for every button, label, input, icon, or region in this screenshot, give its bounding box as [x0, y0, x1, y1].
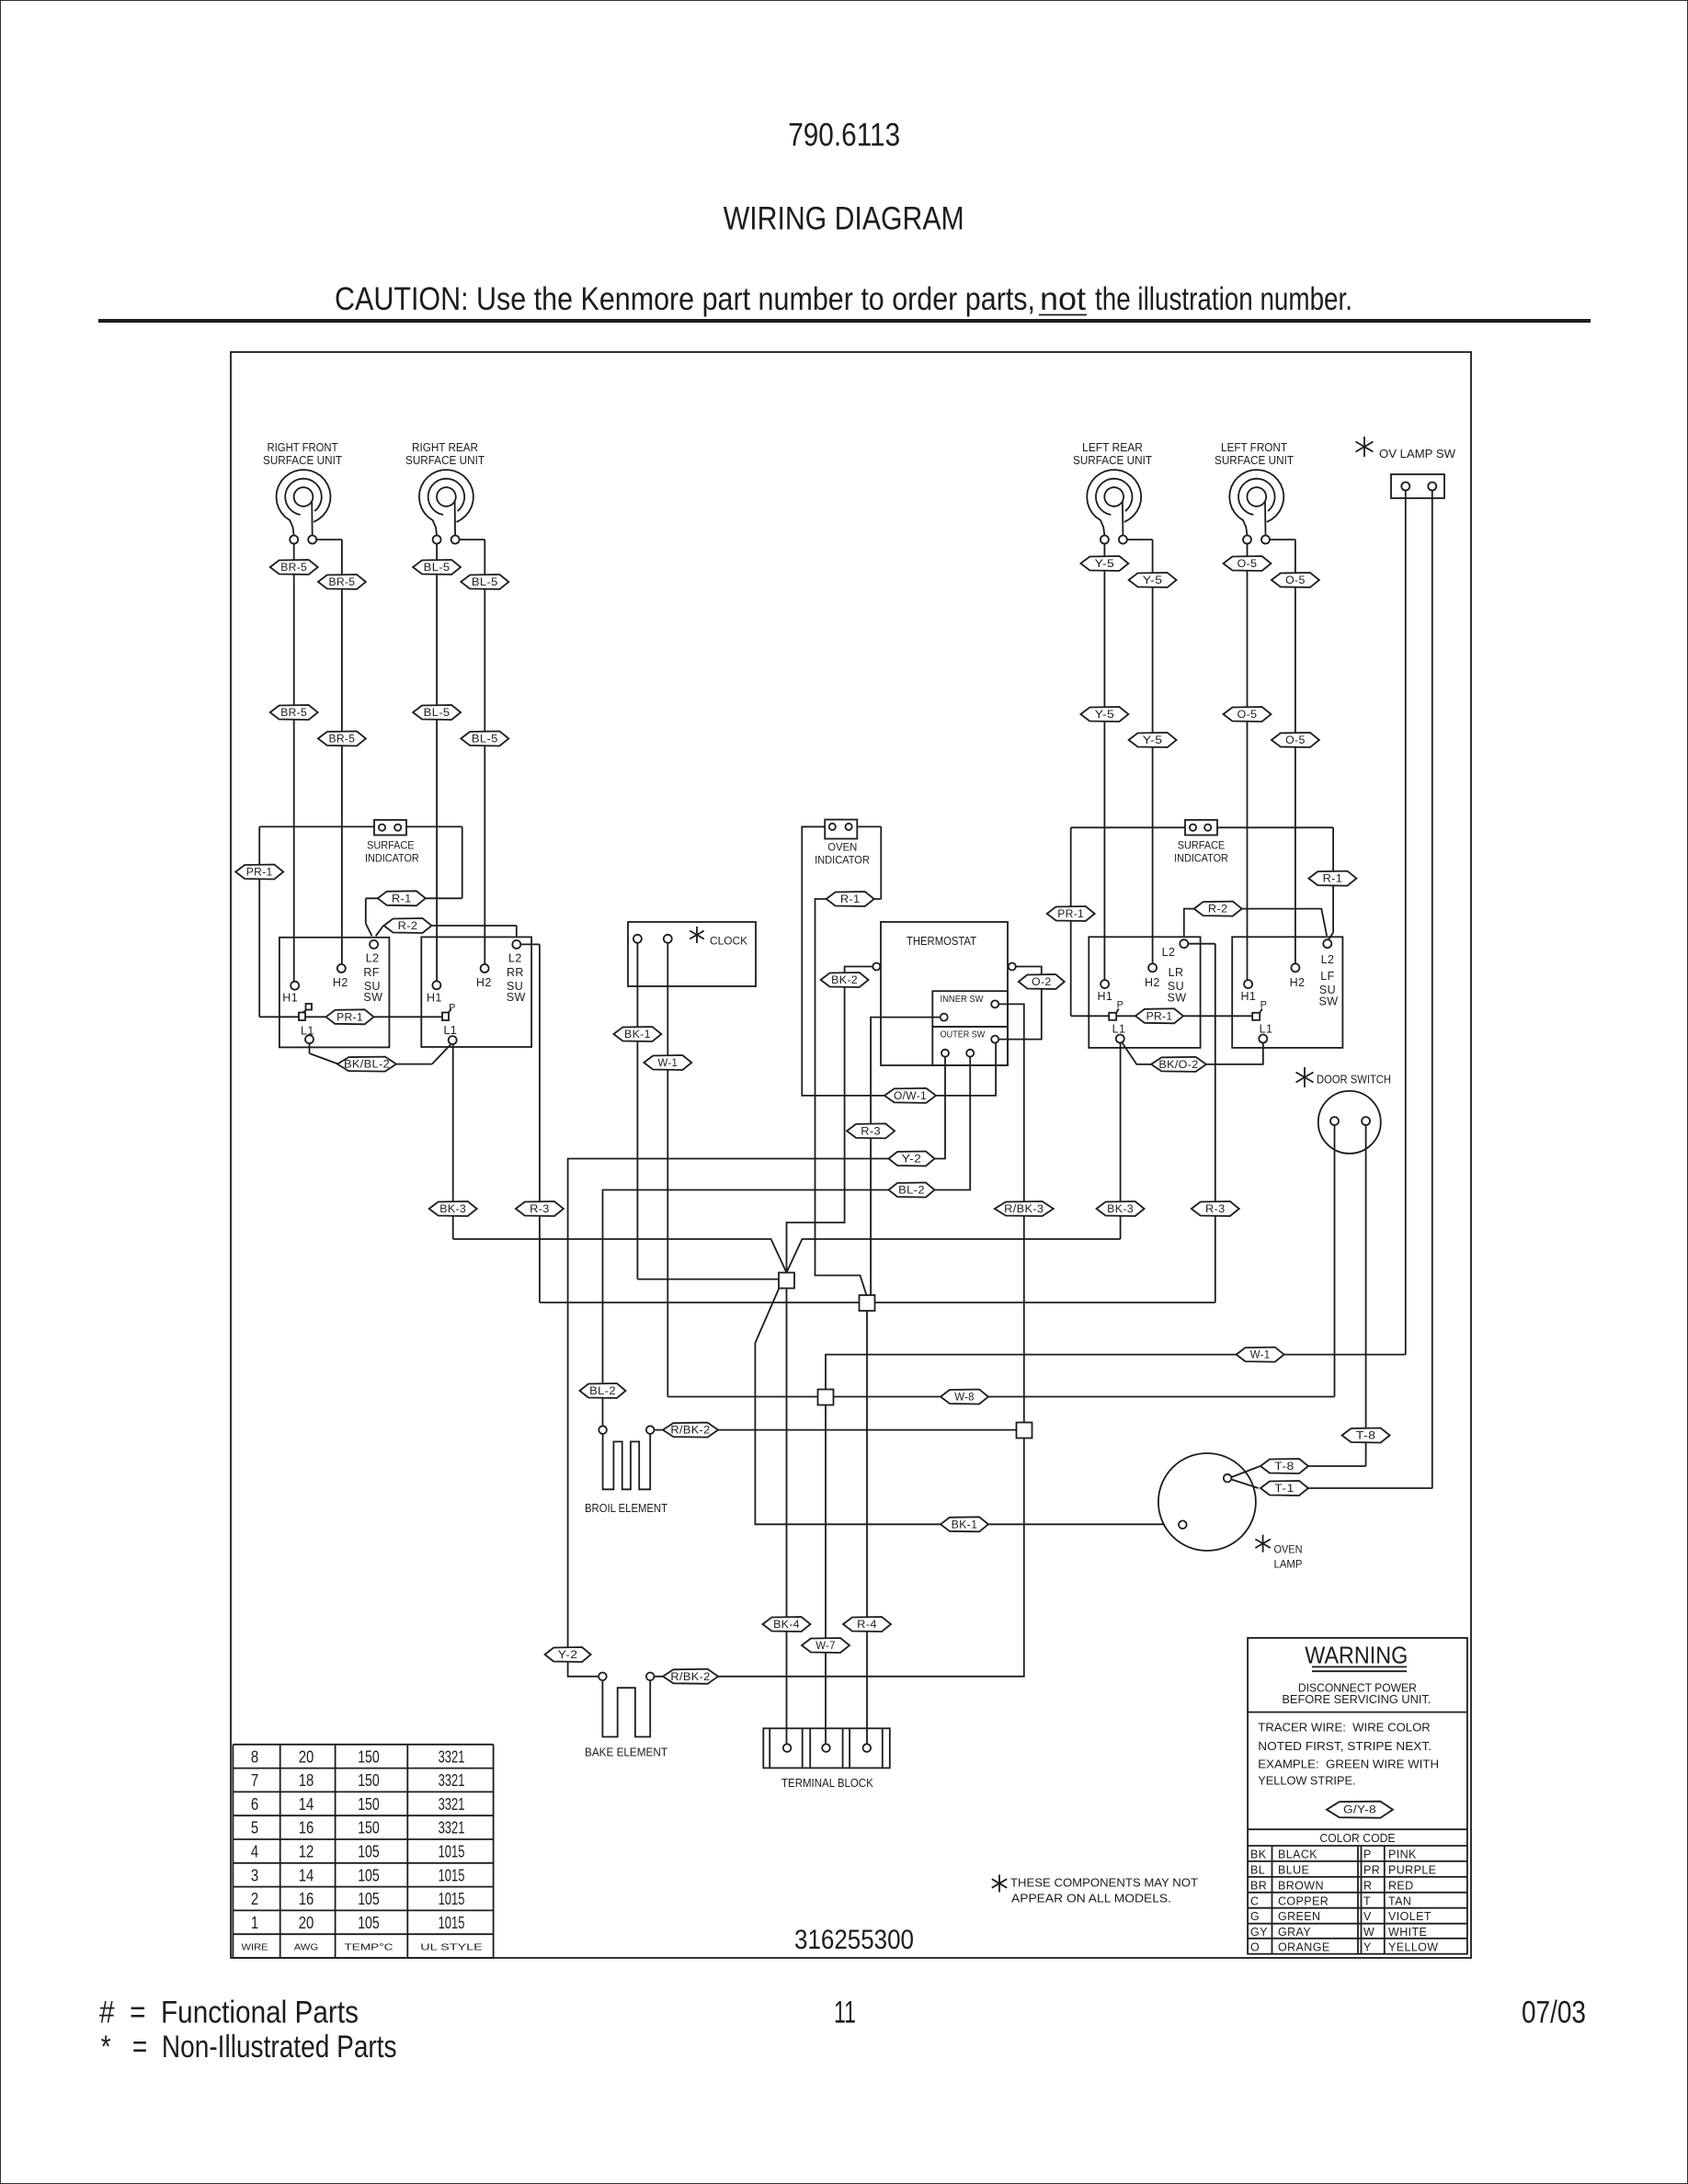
RF pilot flag [306, 1004, 313, 1010]
wire oven indicator right [857, 825, 881, 827]
svg-text:Y-2: Y-2 [558, 1650, 578, 1661]
asterisk door switch [1296, 1067, 1314, 1087]
wire BK-3 from LR L1 [1120, 1043, 1122, 1240]
svg-text:105: 105 [358, 1914, 380, 1932]
wire label BK-3 [1097, 1201, 1145, 1216]
svg-text:R-4: R-4 [857, 1620, 877, 1631]
junction J4 (red/black) [1017, 1423, 1032, 1439]
wires T-8 / T-1 fork [1232, 1466, 1260, 1477]
wire label BK-1 [941, 1517, 988, 1531]
svg-text:BL-2: BL-2 [589, 1386, 616, 1397]
oven lamp body [1158, 1453, 1256, 1551]
svg-text:W: W [1363, 1926, 1374, 1939]
svg-text:H2: H2 [1290, 976, 1306, 989]
wire ov lamp sw right (T-1) long drop [1431, 491, 1433, 1488]
svg-text:07/03: 07/03 [1522, 1995, 1586, 2030]
door switch terminal right [1362, 1117, 1370, 1125]
svg-text:H1: H1 [282, 992, 298, 1005]
svg-text:20: 20 [299, 1747, 314, 1766]
junction J1 (black) [779, 1273, 794, 1289]
svg-text:PR-1: PR-1 [336, 1012, 363, 1023]
svg-text:LAMP: LAMP [1274, 1560, 1303, 1571]
surface indicator left box [374, 820, 406, 836]
svg-text:AWG: AWG [294, 1942, 318, 1953]
wire R/BK-2 bake to J4 [655, 1439, 1024, 1677]
broil element [603, 1434, 651, 1489]
switch RF SU SW box [279, 938, 390, 1048]
svg-text:R-1: R-1 [1323, 874, 1343, 885]
svg-text:BL-5: BL-5 [424, 563, 451, 574]
wire label T-8 [1342, 1428, 1390, 1443]
svg-text:RIGHT REAR: RIGHT REAR [412, 440, 478, 454]
svg-text:R/BK-2: R/BK-2 [670, 1426, 710, 1437]
warning divider 2 [1248, 1828, 1467, 1830]
wire R/BK-3 [998, 1004, 1024, 1422]
wire R-3 from LR L2 [1188, 943, 1215, 945]
wire label W-1 [644, 1055, 691, 1070]
svg-text:H1: H1 [1241, 990, 1257, 1003]
svg-text:O: O [1250, 1940, 1260, 1953]
wire label BL-5 [461, 732, 508, 746]
wire label BL-5 [413, 705, 461, 720]
svg-text:* = Non-Illustrated Parts: * = Non-Illustrated Parts [101, 2030, 397, 2065]
svg-text:1015: 1015 [439, 1914, 465, 1932]
terminal LR H1 [1101, 980, 1109, 988]
svg-text:8: 8 [251, 1747, 258, 1766]
svg-text:TRACER WIRE: WIRE COLOR: TRACER WIRE: WIRE COLOR [1258, 1722, 1431, 1735]
svg-text:O-5: O-5 [1237, 710, 1258, 721]
wire PR-1 RF P to RR P [305, 1016, 442, 1018]
svg-text:11: 11 [834, 1995, 856, 2030]
wire label PR-1 [1047, 906, 1095, 921]
svg-text:5: 5 [251, 1819, 258, 1837]
wire W-1 clock to J3 [667, 1396, 817, 1398]
svg-text:14: 14 [299, 1795, 314, 1814]
svg-text:150: 150 [358, 1747, 380, 1766]
LR pilot terminal [1109, 1013, 1116, 1020]
LF pilot terminal [1252, 1013, 1260, 1020]
wire PR-1 into RF P [259, 1016, 299, 1018]
svg-text:R-3: R-3 [1205, 1204, 1226, 1215]
svg-text:Y: Y [1363, 1940, 1372, 1953]
svg-text:H2: H2 [476, 976, 492, 989]
wire label R-4 [843, 1617, 891, 1632]
asterisk oven lamp [1255, 1535, 1270, 1553]
terminal block terminal 3 [863, 1744, 872, 1752]
svg-text:TEMP°C: TEMP°C [345, 1942, 394, 1953]
svg-text:O-5: O-5 [1237, 559, 1258, 570]
wire R-1 oven indicator to J2 [815, 899, 882, 1295]
wire LR H1 drop [1103, 544, 1105, 981]
svg-text:BL-5: BL-5 [424, 708, 451, 719]
svg-text:O-5: O-5 [1285, 575, 1306, 586]
svg-text:C: C [1250, 1894, 1259, 1907]
wire label G/Y-8 example [1327, 1802, 1393, 1818]
svg-text:BAKE ELEMENT: BAKE ELEMENT [585, 1746, 667, 1759]
wire label O/W-1 [884, 1088, 936, 1103]
svg-text:BLACK: BLACK [1278, 1848, 1317, 1861]
wire label PR-1 [326, 1009, 374, 1024]
svg-text:4: 4 [251, 1843, 258, 1861]
wire label O-5 [1272, 573, 1319, 587]
inner sw box [932, 991, 1008, 1027]
wire label BL-5 [461, 574, 508, 589]
wire PR-1 LR P to LF P [1116, 1015, 1252, 1017]
svg-text:6: 6 [251, 1795, 258, 1814]
svg-text:INNER SW: INNER SW [941, 994, 984, 1005]
wire label R/BK-2 [663, 1423, 718, 1438]
terminal RR L2 [512, 940, 520, 949]
svg-text:W-1: W-1 [1250, 1350, 1271, 1361]
wire label PR-1 [235, 865, 283, 880]
svg-text:14: 14 [299, 1866, 314, 1884]
wire label W-8 [941, 1390, 988, 1405]
svg-text:Y-5: Y-5 [1143, 575, 1163, 586]
svg-text:BK/O-2: BK/O-2 [1158, 1060, 1198, 1071]
svg-text:3321: 3321 [439, 1795, 465, 1814]
right surface indicator box [1185, 820, 1217, 836]
warning box [1248, 1638, 1467, 1954]
svg-text:L1: L1 [443, 1024, 457, 1037]
svg-text:LEFT FRONT: LEFT FRONT [1221, 440, 1287, 454]
svg-text:2: 2 [251, 1890, 258, 1908]
ov lamp switch box [1391, 474, 1444, 498]
svg-text:P: P [1363, 1848, 1372, 1861]
terminal RR H2 [481, 964, 489, 973]
left front surface unit coil [1229, 470, 1283, 543]
wire label Y-2 [545, 1647, 591, 1662]
svg-text:EXAMPLE: GREEN WIRE WITH: EXAMPLE: GREEN WIRE WITH [1258, 1757, 1439, 1770]
bake terminal left [599, 1673, 607, 1681]
wire O-2 [998, 967, 1042, 1040]
svg-text:YELLOW: YELLOW [1388, 1940, 1439, 1953]
wire label BK-2 [821, 973, 869, 987]
svg-text:BL: BL [1250, 1863, 1265, 1876]
wire R-4 J2 to terminal block [866, 1311, 868, 1744]
wire PR-1 vertical [258, 826, 260, 1017]
bake terminal right [646, 1673, 655, 1681]
svg-text:3321: 3321 [439, 1819, 465, 1837]
svg-text:LF: LF [1320, 970, 1334, 983]
svg-text:O-2: O-2 [1032, 977, 1052, 988]
wire BK-1 from clock [636, 943, 638, 1280]
svg-text:790.6113: 790.6113 [788, 117, 900, 153]
svg-text:UL STYLE: UL STYLE [420, 1942, 483, 1953]
color code top line [1248, 1845, 1467, 1847]
svg-text:20: 20 [299, 1914, 314, 1932]
svg-text:H1: H1 [1098, 990, 1113, 1003]
wire PR-1 right to indicator [1071, 826, 1185, 828]
svg-text:105: 105 [358, 1866, 380, 1884]
wire label R-3 [847, 1123, 895, 1138]
svg-text:GY: GY [1250, 1926, 1268, 1939]
svg-text:PR: PR [1363, 1863, 1380, 1876]
terminal block body [763, 1728, 890, 1768]
wire label BR-5 [318, 732, 366, 746]
svg-text:YELLOW STRIPE.: YELLOW STRIPE. [1258, 1774, 1355, 1787]
svg-text:O/W-1: O/W-1 [894, 1091, 927, 1102]
svg-text:OV LAMP SW: OV LAMP SW [1379, 448, 1455, 461]
svg-text:T-1: T-1 [1274, 1484, 1295, 1495]
svg-text:105: 105 [358, 1843, 380, 1861]
svg-text:R/BK-2: R/BK-2 [670, 1672, 710, 1683]
terminal RF H1 [291, 982, 299, 990]
wire label R/BK-2 [663, 1669, 718, 1684]
svg-text:BK-2: BK-2 [831, 975, 858, 986]
svg-text:Y-5: Y-5 [1095, 710, 1115, 721]
wire BK-2 thermostat to J1 [787, 967, 873, 1273]
svg-text:THESE COMPONENTS MAY NOT: THESE COMPONENTS MAY NOT [1010, 1877, 1198, 1890]
svg-text:RED: RED [1388, 1879, 1414, 1892]
wire label BK-4 [763, 1617, 811, 1632]
wire label W-1 [1237, 1348, 1284, 1362]
svg-text:L2: L2 [366, 952, 380, 965]
wire BK-4 J1 to terminal block [786, 1289, 788, 1745]
wire Y-2 [568, 1057, 945, 1677]
wire label O-2 [1019, 974, 1065, 989]
svg-text:SURFACE UNIT: SURFACE UNIT [405, 453, 485, 467]
svg-text:PINK: PINK [1388, 1848, 1417, 1861]
svg-text:T-8: T-8 [1274, 1462, 1295, 1473]
svg-text:TERMINAL BLOCK: TERMINAL BLOCK [781, 1777, 873, 1790]
wire R-1 right from indicator [1217, 826, 1333, 828]
svg-text:L2: L2 [1321, 953, 1335, 966]
svg-text:1: 1 [251, 1914, 258, 1932]
svg-text:Y-5: Y-5 [1095, 559, 1115, 570]
thermostat right terminal [1009, 963, 1016, 971]
thermostat box [881, 922, 1008, 1065]
terminal block dividers [770, 1728, 883, 1768]
wire label BL-2 [580, 1383, 626, 1398]
svg-text:not: not [1040, 281, 1086, 317]
wire label BL-2 [889, 1183, 935, 1198]
outer sw bottom left terminal [941, 1050, 949, 1057]
wire label R-1 [378, 891, 426, 905]
svg-text:W-8: W-8 [954, 1393, 975, 1404]
svg-text:BK-4: BK-4 [773, 1620, 800, 1631]
wire RF H2 jog [317, 539, 342, 540]
svg-text:R-2: R-2 [1208, 904, 1228, 916]
right rear surface unit coil [419, 470, 473, 543]
wire W-8 from door switch [1334, 1125, 1336, 1397]
wire label Y-5 [1129, 573, 1177, 587]
svg-text:BEFORE SERVICING UNIT.: BEFORE SERVICING UNIT. [1282, 1693, 1431, 1706]
wire label R-3 [1192, 1201, 1239, 1216]
wire label T-1 [1260, 1481, 1308, 1496]
wire W-8 bus [834, 1396, 1335, 1398]
terminal block terminal 2 [822, 1744, 830, 1752]
terminal LR L1 [1116, 1035, 1124, 1043]
asterisk ov lamp sw [1356, 437, 1374, 457]
broil terminal right [646, 1426, 655, 1434]
wire R/BK-2 broil to J4 [655, 1429, 1017, 1431]
wire R-2 right [1184, 909, 1327, 937]
terminal LR L2 [1180, 939, 1188, 948]
clock terminal 1 [633, 935, 642, 943]
svg-text:SURFACE: SURFACE [367, 839, 414, 852]
wire BK-1 into J1 [637, 1279, 779, 1280]
svg-text:VIOLET: VIOLET [1388, 1910, 1431, 1923]
wire label Y-2 [889, 1152, 935, 1166]
svg-text:BK-1: BK-1 [624, 1029, 651, 1041]
svg-text:16: 16 [299, 1890, 314, 1908]
svg-text:WIRE: WIRE [242, 1942, 268, 1953]
oven lamp terminal left [1179, 1520, 1187, 1529]
svg-text:L2: L2 [1162, 946, 1176, 959]
svg-text:16: 16 [299, 1819, 314, 1837]
svg-text:V: V [1363, 1910, 1372, 1923]
switch RR SU SW box [421, 937, 531, 1047]
wire R-1 [366, 897, 426, 899]
wire label BR-5 [270, 705, 318, 720]
svg-text:APPEAR ON ALL MODELS.: APPEAR ON ALL MODELS. [1011, 1893, 1171, 1905]
terminal LF L2 [1323, 939, 1331, 948]
wire label BK/O-2 [1151, 1057, 1206, 1072]
svg-text:TAN: TAN [1388, 1894, 1411, 1907]
svg-text:150: 150 [358, 1819, 380, 1837]
svg-text:R-1: R-1 [840, 894, 861, 905]
wire RR H1 drop [436, 544, 438, 982]
wire label Y-5 [1080, 556, 1128, 571]
terminal LF L1 [1259, 1035, 1267, 1043]
svg-text:ORANGE: ORANGE [1278, 1940, 1330, 1953]
svg-text:BROWN: BROWN [1278, 1879, 1324, 1892]
svg-text:SURFACE UNIT: SURFACE UNIT [1073, 453, 1152, 467]
svg-text:NOTED FIRST, STRIPE NEXT.: NOTED FIRST, STRIPE NEXT. [1258, 1740, 1431, 1753]
svg-text:COPPER: COPPER [1278, 1894, 1329, 1907]
svg-text:SW: SW [363, 991, 382, 1004]
svg-text:150: 150 [358, 1795, 380, 1814]
svg-text:3: 3 [251, 1866, 258, 1884]
svg-text:LR: LR [1169, 966, 1184, 979]
junction J2 (red) [860, 1295, 875, 1311]
svg-text:7: 7 [251, 1771, 258, 1790]
wire label BK/BL-2 [337, 1057, 396, 1072]
wire T-8 from door switch [1365, 1125, 1367, 1466]
svg-text:DOOR SWITCH: DOOR SWITCH [1317, 1074, 1391, 1086]
svg-text:12: 12 [299, 1843, 314, 1861]
switch LR SU SW box [1089, 937, 1200, 1048]
junction J3 (white) [818, 1390, 834, 1405]
wire LR H2 jog [1127, 539, 1152, 540]
svg-text:OVEN: OVEN [1274, 1545, 1303, 1556]
svg-text:SW: SW [1319, 995, 1339, 1008]
wire label R-2 [384, 918, 432, 933]
svg-text:PR-1: PR-1 [1146, 1011, 1173, 1022]
switch LF SU SW box [1232, 937, 1342, 1048]
svg-text:W-1: W-1 [658, 1058, 679, 1069]
svg-text:18: 18 [299, 1771, 314, 1790]
svg-text:OUTER SW: OUTER SW [941, 1029, 986, 1041]
svg-text:BR-5: BR-5 [329, 577, 356, 588]
svg-text:PR-1: PR-1 [246, 868, 273, 879]
oven lamp terminal right [1224, 1474, 1232, 1483]
wire W-1 from clock [667, 943, 668, 1397]
svg-text:1015: 1015 [439, 1890, 465, 1908]
wire label R-2 [1194, 902, 1242, 916]
svg-text:1015: 1015 [439, 1866, 465, 1884]
svg-text:WIRING DIAGRAM: WIRING DIAGRAM [724, 200, 964, 236]
door switch body [1318, 1091, 1381, 1154]
svg-text:G: G [1250, 1910, 1260, 1923]
ov lamp sw terminal 2 [1428, 483, 1436, 491]
wire RF H1 drop [293, 544, 295, 982]
svg-text:3321: 3321 [439, 1747, 465, 1766]
svg-text:R-3: R-3 [530, 1204, 550, 1215]
wire label O-5 [1272, 733, 1319, 747]
svg-text:BR: BR [1250, 1879, 1267, 1892]
wire gauge table [233, 1745, 493, 1958]
svg-text:WARNING: WARNING [1305, 1641, 1408, 1668]
thermostat left terminal [873, 963, 880, 971]
svg-text:R-3: R-3 [861, 1126, 881, 1137]
color code table grid [1248, 1846, 1467, 1954]
wire label R-1 [827, 892, 874, 906]
svg-text:BK-1: BK-1 [952, 1519, 978, 1530]
terminal RR L1 [449, 1036, 457, 1044]
ov lamp sw terminal 1 [1401, 483, 1409, 491]
svg-text:BL-2: BL-2 [898, 1186, 925, 1197]
wire label R/BK-3 [995, 1201, 1054, 1216]
wire BK-3 bus into junction J1 [453, 1239, 1121, 1273]
svg-text:RF: RF [363, 966, 379, 979]
terminal LR H2 [1148, 963, 1157, 972]
wire label R-3 [516, 1201, 564, 1216]
svg-text:BLUE: BLUE [1278, 1863, 1309, 1876]
svg-text:L2: L2 [508, 952, 522, 965]
svg-text:PURPLE: PURPLE [1388, 1863, 1436, 1876]
wire oven indicator left [802, 825, 825, 827]
svg-text:PR-1: PR-1 [1057, 909, 1084, 920]
svg-text:316255300: 316255300 [794, 1925, 914, 1955]
wire label O-5 [1224, 707, 1272, 722]
RR pilot terminal [442, 1013, 449, 1021]
svg-text:THERMOSTAT: THERMOSTAT [907, 935, 976, 948]
wire label O-5 [1224, 556, 1272, 571]
horizontal rule [98, 319, 1591, 323]
wire label R-1 [1308, 871, 1356, 886]
terminal LF H1 [1244, 980, 1252, 988]
svg-text:CLOCK: CLOCK [710, 935, 747, 948]
wire label Y-5 [1080, 707, 1128, 722]
wire label T-8 [1260, 1459, 1308, 1473]
wire PR-1 right vertical [1070, 827, 1072, 1016]
svg-text:RIGHT FRONT: RIGHT FRONT [268, 440, 338, 454]
wire R to J2 from inner sw [871, 1018, 941, 1295]
svg-text:H2: H2 [333, 976, 348, 989]
wire surface indicator to R-1 [406, 825, 462, 827]
wire R-3 from RR L2 [520, 943, 540, 945]
right front surface unit coil [277, 470, 331, 543]
wire BK-1 J1 to oven lamp [755, 1287, 1178, 1524]
svg-text:H2: H2 [1145, 976, 1160, 989]
wire label W-7 [802, 1638, 850, 1653]
inner sw left terminal [941, 1014, 948, 1021]
svg-text:SW: SW [507, 991, 526, 1004]
svg-text:Y-2: Y-2 [902, 1155, 922, 1166]
wire BK/BL-2 [309, 1043, 311, 1053]
svg-text:R-1: R-1 [392, 893, 412, 904]
wire BK-3 from RR L1 [452, 1044, 454, 1239]
terminal LF H2 [1291, 963, 1299, 972]
wire label PR-1 [1135, 1008, 1183, 1023]
wire label BK-1 [613, 1027, 661, 1041]
svg-text:BL-5: BL-5 [472, 577, 498, 588]
outer sw bottom mid terminal [966, 1050, 974, 1057]
svg-text:R: R [1363, 1879, 1372, 1892]
svg-text:3321: 3321 [439, 1771, 465, 1790]
asterisk these components [992, 1875, 1007, 1893]
